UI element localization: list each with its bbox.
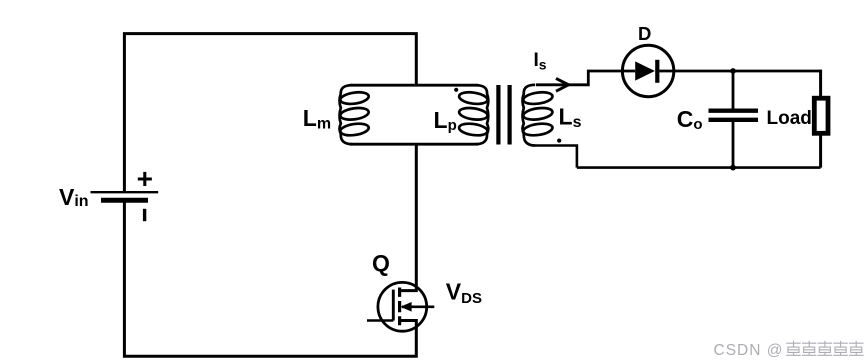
capacitor Co bottom lead	[732, 122, 735, 168]
inductor Lm (magnetizing inductance, 3-loop coil)	[340, 85, 370, 144]
svg-text:Q: Q	[372, 250, 390, 276]
wire: secondary top with Is arrow, step up to diode level	[536, 71, 622, 85]
transformer core bar left	[496, 85, 500, 145]
polarity dot secondary (Ls)	[557, 139, 561, 143]
wire: transformer primary bottom rail	[350, 143, 478, 146]
wire: right vertical lower (Load to bottom rail)	[819, 134, 822, 168]
junction node: Co bottom at rail	[730, 165, 736, 171]
capacitor Co top plate	[709, 108, 759, 112]
wire: secondary bottom rail	[577, 166, 821, 169]
wire: secondary top rail (diode to top-right corner)	[674, 70, 821, 73]
MOSFET Q body line to VDS	[402, 305, 434, 308]
resistor Load box	[814, 98, 828, 133]
current arrow Is head	[556, 78, 569, 91]
MOSFET Q gate lead	[367, 319, 393, 322]
wire: Ls bottom exit, step down to bottom rail	[535, 146, 577, 168]
capacitor Co bottom plate	[709, 118, 759, 122]
wire: transformer primary top rail	[350, 84, 478, 87]
diode D triangle	[635, 61, 655, 80]
wire: through diode	[622, 70, 673, 73]
MOSFET Q body arrow head	[400, 302, 411, 312]
capacitor Co top lead	[732, 71, 735, 109]
wire: input loop left vertical + top rail (battery + to transformer)	[124, 34, 416, 192]
transformer core bar right	[508, 85, 512, 145]
polarity dot primary (Lp)	[454, 88, 458, 92]
battery minus bar	[143, 209, 146, 221]
battery Vin top plate (long thin)	[91, 191, 159, 193]
battery Vin bottom plate (short thick)	[101, 198, 148, 203]
diode D circle	[622, 45, 673, 96]
svg-text:Load: Load	[767, 108, 812, 129]
MOSFET Q circle	[378, 282, 427, 331]
svg-text:+: +	[137, 163, 153, 194]
inductor Ls (secondary winding, 3-loop coil)	[523, 85, 554, 146]
wire: input loop bottom rail + left vertical (battery - to MOSFET source)	[124, 201, 416, 356]
watermark CJK glyphs	[786, 341, 801, 356]
MOSFET Q gate bar	[392, 290, 395, 321]
svg-text:CSDN @: CSDN @	[714, 342, 784, 359]
MOSFET Q channel segments	[398, 288, 401, 326]
wire: right vertical upper (to Load)	[819, 70, 822, 98]
wire: drain vertical (transformer bottom to MOSFET drain)	[400, 144, 417, 290]
inductor Lp (primary winding, 3-loop coil)	[458, 85, 488, 144]
svg-text:D: D	[638, 23, 651, 44]
diode D cathode bar	[655, 60, 659, 83]
junction node: Co top at rail	[730, 68, 736, 74]
